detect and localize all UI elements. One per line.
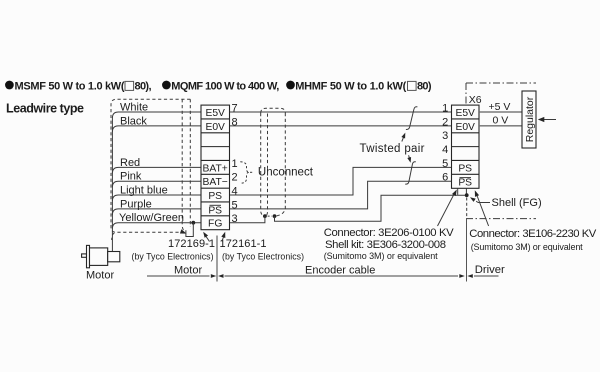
svg-text:PS: PS (208, 205, 222, 216)
svg-text:5: 5 (442, 158, 448, 170)
svg-text:Yellow/Green: Yellow/Green (119, 212, 184, 224)
svg-text:Connector: 3E206-0100 KV: Connector: 3E206-0100 KV (324, 227, 454, 239)
svg-text:(by Tyco Electronics): (by Tyco Electronics) (222, 252, 304, 262)
svg-text:White: White (120, 102, 148, 114)
svg-text:Shell kit: 3E306-3200-008: Shell kit: 3E306-3200-008 (325, 239, 446, 251)
svg-text:BAT+: BAT+ (203, 163, 228, 174)
svg-text:(Sumitomo 3M) or equivalent: (Sumitomo 3M) or equivalent (324, 251, 438, 261)
svg-text:Light blue: Light blue (120, 185, 168, 197)
svg-text:(by Tyco Electronics): (by Tyco Electronics) (132, 252, 214, 262)
svg-text:+5 V: +5 V (489, 101, 511, 113)
svg-text:0 V: 0 V (493, 115, 509, 127)
svg-text:E0V: E0V (205, 122, 225, 133)
svg-text:Motor: Motor (86, 270, 114, 282)
svg-text:BAT−: BAT− (203, 177, 228, 188)
svg-text:2: 2 (232, 172, 238, 184)
svg-text:80),: 80), (135, 80, 152, 92)
svg-text:Red: Red (120, 157, 140, 169)
svg-text:PS: PS (208, 191, 222, 202)
svg-text:Pink: Pink (120, 171, 142, 183)
svg-text:Shell (FG): Shell (FG) (492, 197, 542, 209)
svg-text:E5V: E5V (205, 108, 225, 119)
svg-text:E5V: E5V (455, 108, 475, 119)
svg-text:Black: Black (120, 115, 147, 127)
svg-text:Leadwire type: Leadwire type (6, 102, 84, 116)
svg-text:PS: PS (458, 163, 472, 174)
svg-text:2: 2 (442, 116, 448, 128)
svg-text:4: 4 (442, 144, 448, 156)
svg-text:Regulator: Regulator (524, 96, 536, 142)
svg-text:1: 1 (232, 158, 238, 170)
svg-text:FG: FG (208, 219, 222, 230)
svg-text:6: 6 (442, 172, 448, 184)
svg-text:MQMF 100 W to 400 W,: MQMF 100 W to 400 W, (171, 80, 279, 92)
svg-text:5: 5 (232, 199, 238, 211)
svg-text:MSMF 50 W to 1.0 kW(: MSMF 50 W to 1.0 kW( (15, 80, 125, 92)
svg-text:Purple: Purple (120, 198, 152, 210)
svg-text:Twisted pair: Twisted pair (360, 143, 425, 155)
svg-text:3: 3 (232, 213, 238, 225)
svg-text:3: 3 (442, 130, 448, 142)
svg-text:Encoder cable: Encoder cable (305, 264, 375, 276)
svg-text:Motor: Motor (174, 264, 202, 276)
svg-text:Driver: Driver (475, 264, 505, 276)
svg-text:E0V: E0V (455, 122, 475, 133)
svg-text:Connector: 3E106-2230 KV: Connector: 3E106-2230 KV (469, 228, 596, 240)
svg-text:X6: X6 (469, 94, 482, 106)
svg-text:80): 80) (417, 80, 432, 92)
svg-text:PS: PS (458, 178, 472, 189)
svg-text:MHMF 50 W to 1.0 kW(: MHMF 50 W to 1.0 kW( (295, 80, 406, 92)
svg-text:172161-1: 172161-1 (220, 238, 267, 250)
svg-text:(Sumitomo 3M) or equivalent: (Sumitomo 3M) or equivalent (471, 242, 583, 252)
svg-text:8: 8 (232, 116, 238, 128)
svg-text:7: 7 (232, 102, 238, 114)
svg-text:4: 4 (232, 185, 238, 197)
svg-text:1: 1 (442, 102, 448, 114)
